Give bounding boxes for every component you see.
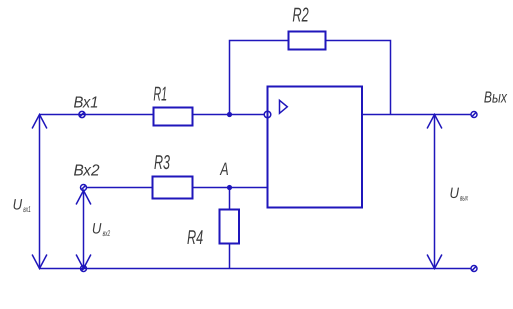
svg-text:R3: R3 <box>154 152 170 174</box>
node A junction <box>227 185 232 190</box>
wire bottom common rail <box>40 268 472 270</box>
op-amp inverting input circle <box>264 111 271 118</box>
arrowhead Uvx2 top <box>76 191 91 205</box>
svg-text:Вх1: Вх1 <box>74 95 99 112</box>
terminal bottom under Vx2 <box>81 266 87 272</box>
wire output to terminal <box>362 114 471 116</box>
resistor R3 <box>153 177 193 199</box>
wire Uvx2 arrow shaft <box>83 191 85 269</box>
wire Vx2 row to non-inverting input <box>87 187 268 189</box>
svg-text:вых: вых <box>460 192 468 202</box>
wire Uvx1 arrow shaft <box>39 115 41 269</box>
wire top rail Vx1 to inverting input <box>40 114 265 116</box>
svg-text:вх1: вх1 <box>23 204 31 214</box>
arrowhead Uvx2 bottom <box>76 255 91 269</box>
svg-text:U: U <box>13 196 23 213</box>
wire R4 bottom stub <box>229 244 231 269</box>
op-amp triangle symbol <box>280 100 288 113</box>
arrowhead Uvyx bottom <box>427 255 442 269</box>
svg-text:Вх2: Вх2 <box>74 162 100 179</box>
svg-text:R1: R1 <box>153 83 167 105</box>
svg-text:вх2: вх2 <box>103 228 111 238</box>
svg-text:U: U <box>92 220 102 237</box>
svg-text:U: U <box>450 185 460 202</box>
terminal Vx2 <box>81 185 87 191</box>
svg-text:Вых: Вых <box>484 89 508 106</box>
wire feedback loop via R2 <box>230 41 391 115</box>
wire R4 top stub <box>229 188 231 210</box>
label Uvyx <box>450 185 469 203</box>
terminal Vx1 <box>79 111 85 117</box>
svg-text:R4: R4 <box>187 227 203 249</box>
arrowhead Uvyx top <box>427 115 442 129</box>
terminal bottom right <box>471 266 477 272</box>
wire Uvyx arrow shaft <box>434 115 436 269</box>
resistor R4 <box>220 210 240 244</box>
resistor R2 <box>289 32 326 50</box>
resistor R1 <box>154 108 193 126</box>
terminal Vyx output <box>471 112 477 118</box>
arrowhead Uvx1 top <box>32 115 47 129</box>
svg-text:R2: R2 <box>292 4 308 26</box>
node junction at R1 output / feedback <box>227 112 232 117</box>
arrowhead Uvx1 bottom <box>32 255 47 269</box>
label Uvx1 <box>13 196 31 214</box>
op-amp U1 body <box>268 87 363 208</box>
label Uvx2 <box>92 220 110 238</box>
svg-text:A: A <box>220 159 229 179</box>
